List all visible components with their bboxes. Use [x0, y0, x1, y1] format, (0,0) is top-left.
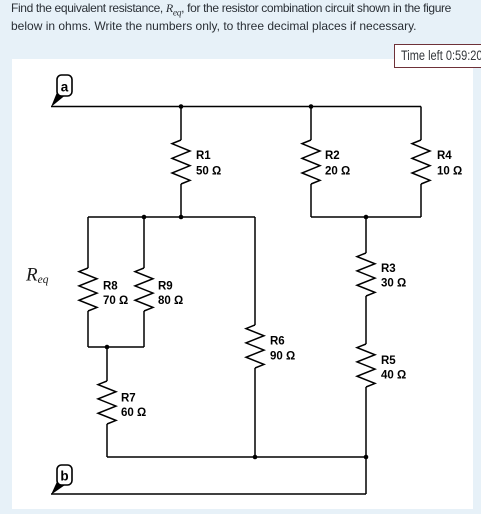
- svg-text:R7: R7: [121, 392, 136, 404]
- svg-text:80 Ω: 80 Ω: [158, 295, 183, 307]
- svg-text:R1: R1: [196, 150, 211, 162]
- svg-text:R9: R9: [158, 281, 173, 293]
- svg-text:R5: R5: [381, 355, 396, 367]
- svg-text:R3: R3: [381, 263, 396, 275]
- svg-text:10 Ω: 10 Ω: [437, 166, 462, 178]
- svg-text:Req: Req: [25, 265, 49, 286]
- svg-text:90 Ω: 90 Ω: [270, 351, 295, 363]
- svg-text:50 Ω: 50 Ω: [196, 166, 221, 178]
- svg-text:70 Ω: 70 Ω: [103, 295, 128, 307]
- svg-text:a: a: [61, 80, 69, 95]
- svg-text:60 Ω: 60 Ω: [121, 407, 146, 419]
- svg-text:20 Ω: 20 Ω: [325, 166, 350, 178]
- svg-text:R8: R8: [103, 281, 118, 293]
- svg-text:b: b: [60, 469, 68, 484]
- svg-text:30 Ω: 30 Ω: [381, 277, 406, 289]
- svg-text:40 Ω: 40 Ω: [381, 370, 406, 382]
- svg-text:R4: R4: [437, 150, 452, 162]
- svg-text:R6: R6: [270, 336, 285, 348]
- svg-text:R2: R2: [325, 150, 340, 162]
